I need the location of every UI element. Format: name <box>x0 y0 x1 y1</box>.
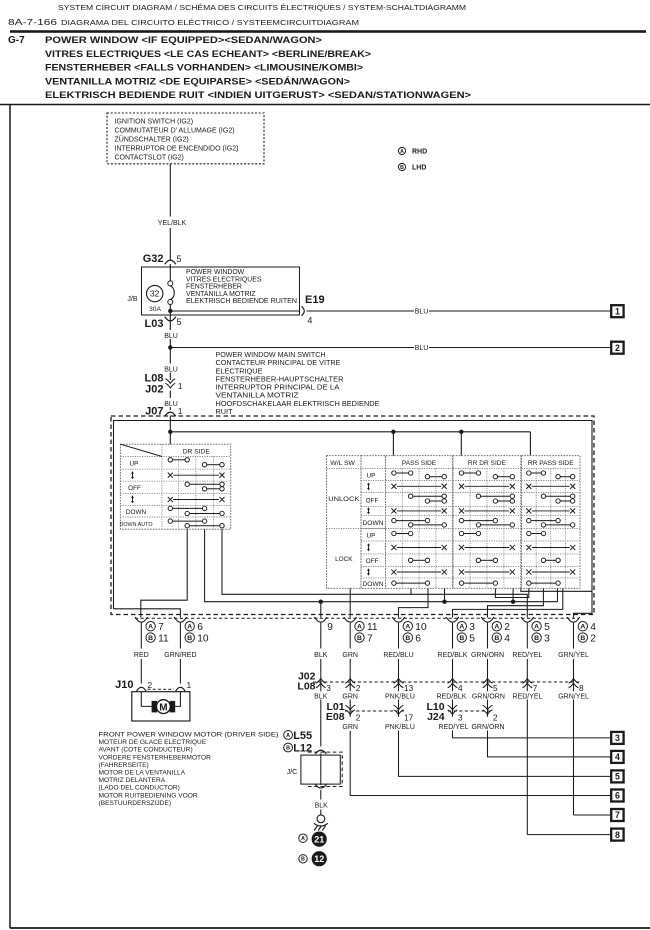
main switch output pin 4 wire GRN/YEL <box>567 617 580 622</box>
internal supply wire upper rail <box>114 421 593 618</box>
pass side switch contacts lock down <box>396 582 425 584</box>
svg-text:PASS SIDE: PASS SIDE <box>402 460 437 467</box>
svg-text:VITRES ELECTRIQUES <LE CAS ECH: VITRES ELECTRIQUES <LE CAS ECHEANT> <BER… <box>45 49 371 60</box>
svg-text:2: 2 <box>504 622 510 633</box>
bus drop to RR DR section <box>460 432 462 456</box>
connector J02/L08 pin 4 <box>448 679 458 684</box>
destination box 2 <box>611 342 623 354</box>
svg-text:1: 1 <box>178 406 183 416</box>
connector J02/L08 pin 3 <box>316 679 326 684</box>
wire to J10 motor connector <box>140 623 142 649</box>
svg-text:A: A <box>494 624 499 631</box>
connector chevron into J/C <box>315 750 326 754</box>
svg-text:7: 7 <box>367 634 373 645</box>
svg-text:VORDERE FENSTERHEBERMOTOR: VORDERE FENSTERHEBERMOTOR <box>99 754 212 761</box>
svg-text:GRN/ORN: GRN/ORN <box>471 652 504 659</box>
svg-text:2: 2 <box>590 634 596 645</box>
connector J07 pin 1 <box>169 407 171 410</box>
svg-text:GRN/ORN: GRN/ORN <box>472 693 505 700</box>
svg-text:PNK/BLU: PNK/BLU <box>385 693 415 700</box>
svg-text:J10: J10 <box>115 679 133 691</box>
svg-text:FRONT POWER WINDOW MOTOR (DRIV: FRONT POWER WINDOW MOTOR (DRIVER SIDE) <box>99 732 279 739</box>
connector L10/J24 pin 2 <box>483 710 493 715</box>
svg-text:OFF: OFF <box>366 497 379 504</box>
svg-text:IGNITION SWITCH (IG2): IGNITION SWITCH (IG2) <box>115 118 194 125</box>
wire YEL/BLK from ignition switch down to G32 <box>169 164 171 217</box>
svg-text:INTERRUPTOR DE ENCENDIDO (IG2): INTERRUPTOR DE ENCENDIDO (IG2) <box>115 145 239 152</box>
pass side switch contacts lock off <box>413 559 425 561</box>
junction node to destination 2 <box>168 345 172 349</box>
diagram frame top edge <box>0 104 650 106</box>
pass side switch contacts lock up <box>396 533 408 535</box>
svg-text:10: 10 <box>197 634 209 645</box>
wire through J/C <box>320 754 322 786</box>
driver side switch table grid <box>120 444 230 529</box>
destination box 6 <box>611 790 623 802</box>
pass side switch contacts unlock up <box>396 472 408 474</box>
legend A = RHD <box>398 147 405 154</box>
wire from fuse to E19 <box>170 310 299 312</box>
pass side switch contacts unlock down <box>396 520 425 522</box>
wire table drop joins ground bus <box>444 588 446 601</box>
svg-text:AVANT (COTE CONDUCTEUR): AVANT (COTE CONDUCTEUR) <box>99 747 193 754</box>
connector J02/L08 pin 2 <box>345 679 355 684</box>
svg-text:2: 2 <box>493 712 498 722</box>
rear pass side switch link 1 <box>532 485 570 487</box>
svg-text:RED/YEL: RED/YEL <box>513 693 543 700</box>
svg-text:GRN/YEL: GRN/YEL <box>558 693 589 700</box>
svg-text:E19: E19 <box>305 294 325 306</box>
rear driver side switch link 4 <box>464 571 509 573</box>
svg-text:M: M <box>159 702 167 713</box>
svg-text:DOWN: DOWN <box>363 581 384 588</box>
svg-text:J/B: J/B <box>127 296 137 303</box>
svg-text:A: A <box>148 624 153 631</box>
svg-text:RED/BLU: RED/BLU <box>383 652 413 659</box>
wire GRN/YEL to destination 7 <box>574 814 612 816</box>
connector L01/E08 pin 17 <box>394 710 404 715</box>
rear pass side switch link 4 <box>532 571 570 573</box>
motor feed wires <box>141 692 151 707</box>
svg-text:B: B <box>400 165 404 171</box>
rear driver side switch contacts lock up <box>464 533 477 535</box>
svg-text:4: 4 <box>308 316 313 326</box>
junction node rr dr drop <box>459 430 463 434</box>
wire drop to pin 9 <box>320 602 322 618</box>
svg-text:A: A <box>580 624 585 631</box>
power window fuse element <box>169 264 171 281</box>
svg-text:1: 1 <box>615 306 620 316</box>
svg-text:2: 2 <box>356 683 361 693</box>
svg-text:VITRES ELECTRIQUES: VITRES ELECTRIQUES <box>186 276 262 283</box>
power window main switch enclosure <box>111 416 594 615</box>
svg-text:5: 5 <box>469 634 475 645</box>
svg-text:YEL/BLK: YEL/BLK <box>158 220 187 227</box>
svg-text:UNLOCK: UNLOCK <box>328 496 360 503</box>
svg-text:OFF: OFF <box>128 485 141 492</box>
main switch output pin 9 wire BLK <box>315 617 328 622</box>
rear pass side switch contacts lock down <box>531 582 556 584</box>
svg-text:CONTACTSLOT (IG2): CONTACTSLOT (IG2) <box>115 154 184 161</box>
svg-text:DR SIDE: DR SIDE <box>183 448 211 455</box>
svg-text:2: 2 <box>148 680 153 690</box>
ground point B 12 <box>299 855 307 863</box>
svg-text:B: B <box>494 635 499 642</box>
wire left rail to pin A6/B10 <box>114 609 181 618</box>
svg-text:OFF: OFF <box>366 558 379 565</box>
svg-text:B: B <box>580 635 585 642</box>
svg-text:J02: J02 <box>145 384 163 396</box>
svg-text:LOCK: LOCK <box>335 556 353 563</box>
bus drop to RR PASS section <box>529 432 531 456</box>
svg-text:MOTOR RUITBEDIENING VOOR: MOTOR RUITBEDIENING VOOR <box>99 792 198 799</box>
svg-text:COMMUTATEUR D’ ALLUMAGE (IG2): COMMUTATEUR D’ ALLUMAGE (IG2) <box>115 127 235 134</box>
wire GRN/ORN to destination 4 <box>488 731 612 757</box>
junction block J/B box <box>142 267 300 315</box>
svg-text:A: A <box>534 624 539 631</box>
svg-text:GRN: GRN <box>342 652 358 659</box>
wire GRN to destination 6 <box>350 731 611 796</box>
connector G32 pin 5 <box>165 260 176 264</box>
svg-text:DOWN: DOWN <box>126 509 147 516</box>
svg-text:MOTEUR DE GLACE ELECTRIQUE: MOTEUR DE GLACE ELECTRIQUE <box>99 739 207 746</box>
svg-text:8: 8 <box>579 683 584 693</box>
svg-text:SYSTEM CIRCUIT DIAGRAM / SCHÉM: SYSTEM CIRCUIT DIAGRAM / SCHÉMA DES CIRC… <box>58 3 466 12</box>
destination box 8 <box>611 829 623 841</box>
wire PNK/BLU to destination 5 <box>399 731 612 777</box>
svg-text:5: 5 <box>615 772 620 782</box>
junction node ground 3 <box>511 600 515 604</box>
svg-text:3: 3 <box>469 622 475 633</box>
destination box 4 <box>611 751 623 763</box>
front power window motor box <box>132 692 190 721</box>
svg-text:UP: UP <box>367 472 376 479</box>
junction connector J/C box <box>301 755 340 784</box>
svg-text:5: 5 <box>544 622 550 633</box>
svg-text:HOOFDSCHAKELAAR ELEKTRISCH BED: HOOFDSCHAKELAAR ELEKTRISCH BEDIENDE <box>216 399 380 408</box>
svg-text:1: 1 <box>187 680 192 690</box>
svg-text:9: 9 <box>327 622 333 633</box>
svg-text:6: 6 <box>197 622 203 633</box>
wire BLU to destination 1 <box>307 310 415 312</box>
rear driver side switch contacts lock down <box>464 582 494 584</box>
junction node J07 feed <box>168 430 172 434</box>
svg-text:UP: UP <box>367 532 376 539</box>
svg-text:32: 32 <box>150 289 160 299</box>
svg-text:J/C: J/C <box>287 769 298 776</box>
svg-text:7: 7 <box>158 622 164 633</box>
svg-text:RUIT: RUIT <box>216 407 234 416</box>
destination box 5 <box>611 770 623 782</box>
wire RED/YEL to destination 8 <box>527 834 611 836</box>
diagram frame left edge <box>9 105 11 929</box>
svg-text:RED/YEL: RED/YEL <box>439 724 469 731</box>
window lock switch label column <box>327 456 362 589</box>
wire table drop 3 joins ground bus <box>557 588 559 601</box>
connector J10 dashed link <box>148 688 175 690</box>
DR switch contacts UP <box>173 459 186 461</box>
wire BLU to destination 2 <box>170 347 414 349</box>
wire to J02/L08 connector <box>526 623 528 649</box>
svg-text:RED/YEL: RED/YEL <box>512 652 542 659</box>
junction node ground 1 <box>319 600 323 604</box>
ground point A 21 <box>299 834 307 842</box>
motor brushes <box>152 701 158 713</box>
legend B = LHD <box>398 163 405 170</box>
svg-text:PNK/BLU: PNK/BLU <box>385 724 415 731</box>
main switch output pin 11 wire GRN <box>344 617 357 622</box>
svg-text:1: 1 <box>178 381 183 391</box>
main switch output pin 2 wire GRN/ORN <box>481 617 494 622</box>
svg-text:BLU: BLU <box>415 345 429 352</box>
connector L10/J24 pin 3 <box>448 710 458 715</box>
dashed connector line of main switch output pins <box>135 617 579 619</box>
svg-text:21: 21 <box>314 834 324 844</box>
svg-text:B: B <box>459 635 464 642</box>
svg-text:BLK: BLK <box>314 652 328 659</box>
svg-text:4: 4 <box>458 683 463 693</box>
rear driver side switch link 3 <box>464 547 509 549</box>
wire link rr pass col to right rail <box>521 588 592 591</box>
svg-text:7: 7 <box>615 810 620 820</box>
rear driver side switch contacts unlock off <box>481 495 511 497</box>
svg-text:2: 2 <box>615 343 620 353</box>
junction node pass drop <box>391 430 395 434</box>
wire pass col to pin A10/B6 <box>399 588 429 617</box>
svg-text:VENTANILLA MOTRIZ <DE EQUIPARS: VENTANILLA MOTRIZ <DE EQUIPARSE> <SEDÁN/… <box>45 75 350 87</box>
svg-text:LHD: LHD <box>412 165 426 172</box>
DR contact link row 1 <box>173 474 219 476</box>
svg-text:G-7: G-7 <box>8 35 25 46</box>
rear driver side switch link 1 <box>464 485 509 487</box>
connector L01/E08 pin 2 <box>345 710 355 715</box>
fuse number circle 32 <box>147 285 163 301</box>
wire to J02/L08 connector <box>452 623 454 649</box>
svg-text:6: 6 <box>415 634 421 645</box>
svg-text:A: A <box>286 733 290 739</box>
rear pass side switch link 3 <box>532 547 570 549</box>
svg-text:L03: L03 <box>145 318 164 330</box>
wire DR col2 to pin A7/B11 <box>141 529 187 617</box>
svg-text:GRN: GRN <box>342 693 358 700</box>
wire rr pass col to pin A3/B5 <box>453 588 563 617</box>
svg-text:4: 4 <box>615 752 620 762</box>
svg-text:BLU: BLU <box>164 367 178 374</box>
svg-text:(BESTUURDERSZIJDE): (BESTUURDERSZIJDE) <box>99 800 172 807</box>
svg-text:BLU: BLU <box>164 401 178 408</box>
svg-text:B: B <box>286 745 290 751</box>
destination box 3 <box>611 732 623 744</box>
pass side switch contacts unlock off <box>413 495 442 497</box>
connector L03 pin 5 <box>165 317 176 321</box>
wire to J10 motor connector <box>179 623 181 649</box>
svg-text:5: 5 <box>177 317 182 327</box>
ground symbol <box>317 815 325 823</box>
svg-text:B: B <box>187 635 192 642</box>
svg-text:FENSTERHEBER <FALLS VORHANDEN>: FENSTERHEBER <FALLS VORHANDEN> <LIMOUSIN… <box>45 63 363 74</box>
connector J02/L08 pin 7 <box>522 679 532 684</box>
svg-text:11: 11 <box>158 634 169 645</box>
svg-text:A: A <box>405 624 410 631</box>
diagram frame bottom edge <box>10 927 650 929</box>
rear pass side switch contacts unlock off <box>546 495 571 497</box>
svg-text:DIAGRAMA DEL CIRCUITO ELÉCTRIC: DIAGRAMA DEL CIRCUITO ELÉCTRICO / SYSTEE… <box>61 18 359 27</box>
svg-text:B: B <box>148 635 153 642</box>
svg-text:POWER WINDOW <IF EQUIPPED><SED: POWER WINDOW <IF EQUIPPED><SEDAN/WAGON> <box>45 35 322 46</box>
svg-text:5: 5 <box>177 254 182 264</box>
pass side switch table grid <box>386 456 453 589</box>
svg-text:B: B <box>357 635 362 642</box>
svg-text:UP: UP <box>130 460 139 467</box>
svg-text:A: A <box>357 624 362 631</box>
svg-text:RR PASS SIDE: RR PASS SIDE <box>528 460 574 467</box>
rear driver side switch contacts unlock down <box>464 520 494 522</box>
svg-text:A: A <box>459 624 464 631</box>
ignition switch box <box>107 113 264 164</box>
bus drop to PASS section <box>392 432 394 456</box>
svg-text:12: 12 <box>314 854 324 864</box>
svg-text:BLK: BLK <box>314 693 328 700</box>
svg-text:RHD: RHD <box>412 149 427 156</box>
connector J10 pin 1 <box>176 687 186 691</box>
svg-text:4: 4 <box>504 634 510 645</box>
main switch output pin 6 wire GRN/RED <box>174 617 187 622</box>
svg-text:3: 3 <box>615 733 620 743</box>
svg-text:30A: 30A <box>149 306 161 313</box>
svg-text:3: 3 <box>458 712 463 722</box>
rear driver side switch contacts unlock up <box>464 472 477 474</box>
DR switch contacts OFF <box>189 483 219 485</box>
svg-text:A: A <box>301 836 305 842</box>
svg-text:W/L SW: W/L SW <box>330 460 355 467</box>
svg-text:GRN/RED: GRN/RED <box>164 652 196 659</box>
svg-text:G32: G32 <box>143 253 164 265</box>
connector chevron out of J/C <box>315 784 326 788</box>
svg-text:ELEKTRISCH BEDIENDE RUITEN: ELEKTRISCH BEDIENDE RUITEN <box>186 298 297 305</box>
destination box 1 <box>611 305 623 317</box>
rear pass side switch contacts unlock down <box>531 520 556 522</box>
svg-text:7: 7 <box>533 683 538 693</box>
junction node at fuse output <box>168 309 172 313</box>
pass side switch link 1 <box>397 485 441 487</box>
svg-text:E08: E08 <box>326 711 345 723</box>
svg-text:A: A <box>400 149 404 155</box>
internal supply bus rail <box>170 431 530 433</box>
connector E19 pin 4 <box>302 306 305 315</box>
svg-text:J24: J24 <box>427 711 445 723</box>
connector J02/L08 pin 5 <box>483 679 493 684</box>
svg-text:8A-7-166: 8A-7-166 <box>8 17 57 27</box>
wire to J02/L08 connector <box>349 623 351 649</box>
rear driver side switch contacts lock off <box>481 559 494 561</box>
wire pass col to pin A11/B7 <box>349 588 351 617</box>
svg-text:ELEKTRISCH BEDIENDE RUIT <INDI: ELEKTRISCH BEDIENDE RUIT <INDIEN UITGERU… <box>45 90 471 101</box>
svg-text:3: 3 <box>326 683 331 693</box>
rear pass side switch contacts lock up <box>531 533 541 535</box>
rear pass side switch table grid <box>522 456 581 589</box>
pass side switch link 4 <box>397 571 441 573</box>
DR switch contacts DOWN <box>173 507 203 509</box>
svg-text:GRN/ORN: GRN/ORN <box>471 724 504 731</box>
wire branch into pass table <box>410 588 412 594</box>
svg-text:BLK: BLK <box>315 802 329 809</box>
connector J02/L08 pin 13 <box>394 679 404 684</box>
svg-text:10: 10 <box>415 622 427 633</box>
wire to J02/L08 connector <box>398 623 400 649</box>
svg-text:3: 3 <box>544 634 550 645</box>
svg-text:B: B <box>534 635 539 642</box>
header thick rule <box>10 30 646 33</box>
connector J02/L08 pin 8 <box>569 679 579 684</box>
destination box 7 <box>611 809 623 821</box>
svg-text:4: 4 <box>590 622 596 633</box>
connector B L12 <box>284 743 293 752</box>
connector A L55 <box>284 731 293 740</box>
rear pass side switch contacts unlock up <box>531 472 541 474</box>
svg-text:ZÜNDSCHALTER (IG2): ZÜNDSCHALTER (IG2) <box>115 135 189 143</box>
svg-text:RED: RED <box>134 652 149 659</box>
ground bus wire <box>205 529 558 602</box>
wire to J02/L08 connector <box>487 623 489 649</box>
svg-text:(LADO DEL CONDUCTOR): (LADO DEL CONDUCTOR) <box>99 785 180 792</box>
svg-text:17: 17 <box>404 712 414 722</box>
svg-text:RED/BLK: RED/BLK <box>437 693 467 700</box>
wire RED/YEL to destination 3 <box>453 731 612 738</box>
pass side switch link 3 <box>397 547 441 549</box>
svg-text:RED/BLK: RED/BLK <box>438 652 468 659</box>
svg-text:POWER WINDOW: POWER WINDOW <box>186 269 245 276</box>
svg-text:GRN: GRN <box>342 724 358 731</box>
main switch output pin 10 wire RED/BLU <box>392 617 405 622</box>
wire to J02/L08 connector <box>573 623 575 649</box>
svg-text:13: 13 <box>404 683 414 693</box>
svg-text:B: B <box>301 857 305 863</box>
svg-text:L12: L12 <box>293 743 312 755</box>
wire table drop 2 joins ground bus <box>512 588 514 601</box>
connector pair L08 / J02 pin 1 <box>169 373 171 381</box>
svg-text:8: 8 <box>615 830 620 840</box>
svg-text:2: 2 <box>356 712 361 722</box>
svg-text:BLU: BLU <box>415 308 429 315</box>
svg-text:GRN/YEL: GRN/YEL <box>558 652 589 659</box>
svg-text:6: 6 <box>615 791 620 801</box>
main switch output pin 7 wire RED <box>135 617 148 622</box>
svg-text:L08: L08 <box>297 680 315 692</box>
pass side switch link 2 <box>397 510 441 512</box>
svg-text:RR DR SIDE: RR DR SIDE <box>468 460 507 467</box>
wire to J02/L08 connector <box>320 623 322 649</box>
svg-text:B: B <box>405 635 410 642</box>
rear pass side switch link 2 <box>532 510 570 512</box>
wire DR col4 to pin A5/B3 <box>222 529 527 617</box>
rear driver side switch table grid <box>453 456 521 589</box>
svg-text:J07: J07 <box>145 406 163 418</box>
main switch output pin 5 wire RED/YEL <box>521 617 534 622</box>
svg-text:DOWN: DOWN <box>363 520 384 527</box>
wire rr pass col to pin A2/B4 <box>488 588 544 617</box>
svg-text:VENTANILLA MOTRIZ: VENTANILLA MOTRIZ <box>186 291 256 298</box>
svg-text:FENSTERHEBER: FENSTERHEBER <box>186 284 242 291</box>
rear pass side switch contacts lock off <box>546 559 556 561</box>
DR switch contacts DOWN AUTO <box>173 520 203 522</box>
wire BLK to ground <box>320 790 322 800</box>
svg-text:11: 11 <box>367 622 378 633</box>
svg-text:DOWN AUTO: DOWN AUTO <box>120 522 153 528</box>
wire link rr dr cols <box>495 588 528 597</box>
svg-text:BLU: BLU <box>164 333 178 340</box>
svg-text:5: 5 <box>493 683 498 693</box>
svg-text:MOTOR DE LA VENTANILLA: MOTOR DE LA VENTANILLA <box>99 770 186 777</box>
